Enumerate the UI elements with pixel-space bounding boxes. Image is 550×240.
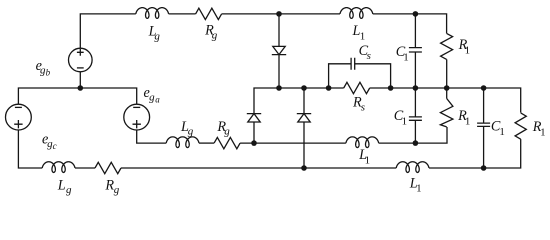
junction dot mid rail at C1 right column [481,85,487,91]
capacitor C_1 right [477,123,490,126]
inductor L_1 phase-a [346,137,379,148]
svg-text:1: 1 [465,115,471,127]
voltage source e_gc [6,104,32,130]
svg-text:g: g [188,126,194,138]
wire diode D1 bottom lead [278,55,280,88]
wire top rail segment 3 [222,13,340,15]
wire neutral bus [18,88,136,104]
wire phase-a segment 3 [240,142,346,144]
wire diode D3 top lead [303,88,305,114]
junction dot top rail at diode D1 [276,11,282,17]
wire diode D3 bottom lead crossing phase-a [303,122,305,168]
svg-text:g: g [212,30,218,42]
label L_1 phase-a [358,147,370,166]
resistor R_1 right [515,113,526,139]
inductor L_g phase-a [166,137,199,148]
junction dot mid rail at Cs loop left [326,85,332,91]
svg-text:g: g [149,91,155,103]
wire top rail segment 4 with corner to R1 top [373,14,447,34]
label C_s [359,43,371,62]
junction dot top rail at C1 top [413,11,419,17]
junction dot bottom at C1 right [481,165,487,171]
capacitor C_s [351,58,355,70]
resistor R_g top [196,8,222,19]
wire diode D2 bottom lead [253,122,255,143]
wire C1 top lower lead [414,52,416,88]
label L_1 bottom [409,175,422,194]
label R_g bottom [104,177,119,196]
svg-text:g: g [154,30,160,42]
junction dot mid rail at R1 column [444,85,450,91]
junction dot mid rail at C1 column [413,85,419,91]
label L_g top [148,24,161,43]
junction dot phase-a at C1 mid [413,140,419,146]
resistor R_g phase-a [214,137,240,148]
svg-text:1: 1 [365,155,371,167]
label e_ga [144,85,161,105]
svg-text:1: 1 [416,183,422,195]
diode D2 [247,114,261,122]
inductor L_g top [136,8,169,19]
voltage source e_gb [69,48,93,72]
wire top rail segment 1 with corner to e_gb [80,14,136,48]
wire C1 top upper lead [414,14,416,48]
svg-text:1: 1 [403,52,409,64]
svg-text:a: a [155,95,160,105]
wire R1 top lower lead [446,59,448,88]
wire C1 mid upper lead [414,88,416,117]
resistor R_s [344,82,370,93]
wire C1 right upper lead [483,88,485,123]
svg-text:g: g [66,184,72,196]
resistor R_1 middle [440,99,453,127]
diode D1 [272,46,286,54]
label C_1 right [491,119,505,138]
junction dot mid rail at diode D3 [301,85,307,91]
wire Cs loop right side [355,64,391,88]
junction dot neutral at e_gb [78,85,84,91]
svg-text:L: L [57,177,66,193]
wire diode D1 top lead [278,14,280,47]
resistor R_g bottom [95,162,121,173]
wire C1 mid lower lead [414,120,416,143]
resistor R_1 top [441,33,453,59]
voltage source e_ga [124,104,150,130]
wire R1 mid upper lead [446,88,448,99]
wire phase-a segment 2 [199,142,214,144]
wire Cs loop left side [329,64,352,88]
wire bottom segment 3 [121,167,396,169]
label e_gc [42,132,57,152]
wire C1 right lower lead [483,126,485,168]
label e_gb [36,58,51,78]
svg-text:b: b [46,68,51,78]
label C_1 top [396,44,409,63]
junction dot bottom at diode D3 [301,165,307,171]
inductor L_g bottom [42,162,75,173]
wire middle rail right with corner to R1 right [370,88,521,113]
label R_g phase-a [216,119,230,138]
svg-text:1: 1 [465,45,471,57]
wire e_gb bottom lead [79,72,81,88]
diode D3 [297,114,311,122]
wire middle rail left with corner to diode D2 [254,88,344,114]
svg-text:1: 1 [360,30,366,42]
label L_1 top [352,23,366,42]
junction dot mid rail at Cs loop right [388,85,394,91]
svg-text:g: g [114,184,120,196]
wire phase-a lead from e_ga with corner [137,130,167,143]
label R_g top [204,23,218,42]
label L_g phase-a [180,119,194,138]
svg-text:g: g [224,126,230,138]
label R_1 right [532,119,546,138]
svg-text:s: s [361,101,365,113]
svg-text:1: 1 [402,115,408,127]
junction dot phase-a at diode D2 [251,140,257,146]
svg-text:s: s [367,50,371,62]
label C_1 middle [394,108,407,127]
wire bottom lead from e_gc with corner [18,130,42,168]
label R_s [352,94,365,113]
capacitor C_1 top [409,48,422,52]
wire bottom segment 4 with corner to R1 right [429,139,521,168]
junction dot mid rail at diode D1 [276,85,282,91]
wire top rail segment 2 [169,13,196,15]
wire bottom segment 2 [75,167,95,169]
label R_1 top [458,37,471,56]
inductor L_1 top [340,8,373,19]
label R_1 middle [457,108,470,127]
capacitor C_1 middle [409,117,422,120]
inductor L_1 bottom [396,162,429,173]
label L_g bottom [57,177,72,196]
svg-text:1: 1 [499,126,505,138]
svg-text:c: c [53,141,57,151]
svg-text:1: 1 [540,127,546,139]
wire phase-a segment 4 with corner to R1 mid [379,127,447,143]
